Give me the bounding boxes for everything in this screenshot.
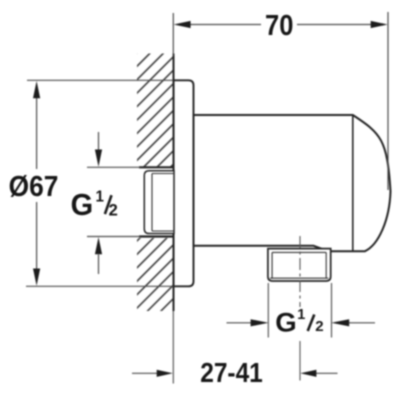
svg-text:1: 1 [297,307,305,323]
svg-text:2: 2 [109,201,118,219]
svg-text:27-41: 27-41 [200,357,263,389]
svg-text:G: G [275,307,296,338]
svg-text:2: 2 [315,319,323,335]
svg-text:G: G [71,188,94,222]
svg-text:70: 70 [265,10,293,42]
svg-text:Ø67: Ø67 [9,170,59,202]
svg-text:1: 1 [96,188,105,205]
